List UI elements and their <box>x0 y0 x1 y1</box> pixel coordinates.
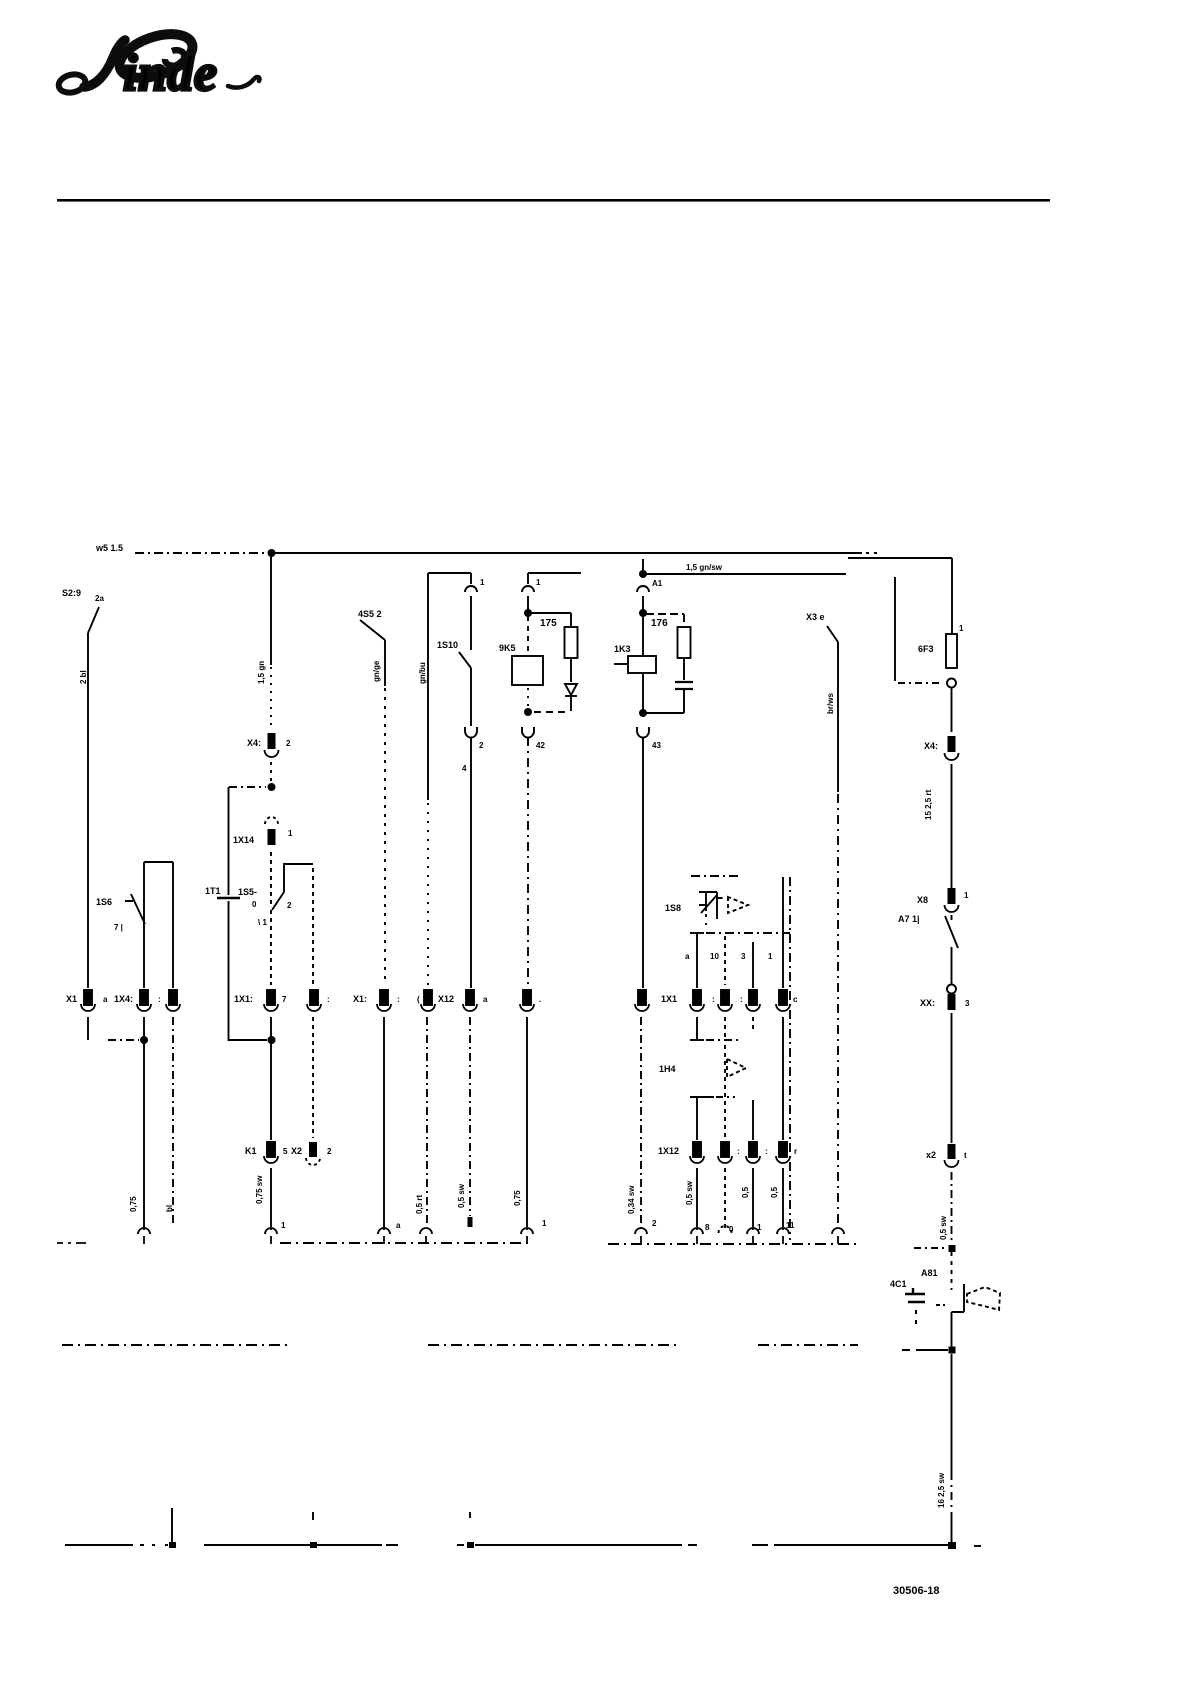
svg-text:0: 0 <box>252 900 257 909</box>
wire top bus dash-dot <box>135 552 268 554</box>
svg-text:A7 1|: A7 1| <box>898 914 920 924</box>
node G713 <box>639 709 647 717</box>
svg-text:X12: X12 <box>438 994 454 1004</box>
svg-text:0,75: 0,75 <box>129 1196 138 1212</box>
connector G end <box>635 1228 647 1244</box>
wire 4S5 dashed <box>384 688 386 985</box>
svg-text:1: 1 <box>959 624 964 633</box>
svg-text:2: 2 <box>479 741 484 750</box>
node D1040 <box>268 1036 276 1044</box>
connector P2 <box>712 990 732 1011</box>
svg-text:1S10: 1S10 <box>437 640 458 650</box>
connector X1 row6 <box>353 990 400 1011</box>
ground stub <box>171 1508 173 1545</box>
connector F plug <box>465 573 485 592</box>
switch 4S5 <box>358 609 385 640</box>
wire F long <box>470 737 472 988</box>
node B junction <box>140 1036 148 1044</box>
wire 4S5 bottom <box>383 1017 385 1230</box>
connector Q3 <box>746 1142 768 1163</box>
wire P1 below <box>696 1017 698 1039</box>
svg-text:1S6: 1S6 <box>96 897 112 907</box>
ground bus 4 <box>774 1544 948 1546</box>
svg-text:1: 1 <box>281 1221 286 1230</box>
connector H plug <box>522 573 541 592</box>
svg-text:X3 e: X3 e <box>806 612 825 622</box>
wire E lower <box>312 1017 314 1138</box>
wire K line <box>894 577 896 681</box>
svg-text:15 2,5 rt: 15 2,5 rt <box>924 789 933 820</box>
svg-text:10: 10 <box>710 952 719 961</box>
svg-text:XX:: XX: <box>920 998 935 1008</box>
instrument frame bottom bar <box>690 1039 740 1041</box>
svg-text:0,5 sw: 0,5 sw <box>685 1180 694 1205</box>
wire P3 below <box>752 1017 754 1033</box>
switch X3 <box>806 612 838 642</box>
svg-text:K1: K1 <box>245 1146 257 1156</box>
svg-text::: : <box>712 995 715 1004</box>
svg-text:t: t <box>964 1151 967 1160</box>
wire D dotted <box>270 667 272 729</box>
fuse 6F3 <box>918 624 964 668</box>
connector E row <box>307 990 330 1011</box>
svg-text:1X14: 1X14 <box>233 835 254 845</box>
svg-text:.: . <box>539 995 541 1004</box>
instrument panel frame right <box>789 877 791 1240</box>
wire G stub <box>642 559 644 574</box>
wire H dash <box>527 616 529 653</box>
svg-text:1: 1 <box>480 578 485 587</box>
wire R3 <box>951 947 953 984</box>
connector B end <box>138 1228 150 1244</box>
wire F left dotted <box>427 803 429 985</box>
svg-text:0,5 rt: 0,5 rt <box>415 1195 424 1214</box>
node ground stub <box>169 1542 176 1548</box>
connector XX:3 <box>920 985 970 1011</box>
wire G long <box>642 737 644 988</box>
svg-text:2: 2 <box>287 901 292 910</box>
connector H socket <box>522 727 545 750</box>
svg-text:X4:: X4: <box>924 741 938 751</box>
frame line low3 <box>758 1344 858 1346</box>
resistor 176 branch <box>646 614 691 680</box>
wire R link2 <box>902 1349 948 1351</box>
connector 1X1:7 <box>234 990 287 1011</box>
svg-text:0,5: 0,5 <box>770 1186 779 1198</box>
svg-text:\ 1: \ 1 <box>258 918 267 927</box>
ground bus dots <box>140 1544 168 1546</box>
svg-text:bl: bl <box>165 1205 174 1212</box>
wire X3 <box>837 642 839 792</box>
wire P2 below <box>724 1017 726 1037</box>
svg-text:2: 2 <box>327 1147 332 1156</box>
svg-text:A1: A1 <box>652 579 663 588</box>
svg-text:1,5 gn: 1,5 gn <box>257 661 266 684</box>
header rule <box>57 199 1050 202</box>
svg-text:0,75 sw: 0,75 sw <box>255 1175 264 1204</box>
wire D top <box>270 553 272 665</box>
svg-text:S2:9: S2:9 <box>62 588 81 598</box>
wire K link <box>898 682 940 684</box>
svg-text:1X12: 1X12 <box>658 1146 679 1156</box>
wire P2 top <box>724 936 726 985</box>
Linde logo <box>57 26 260 102</box>
svg-text::: : <box>765 1147 768 1156</box>
lower frame bar <box>690 1096 735 1098</box>
svg-text:2: 2 <box>286 739 291 748</box>
svg-text::: : <box>397 995 400 1004</box>
svg-text:w5 1.5: w5 1.5 <box>95 543 123 553</box>
svg-text:1: 1 <box>964 891 969 900</box>
wire Q3 bottom <box>752 1168 754 1230</box>
frame line low1 <box>62 1344 290 1346</box>
wire A stub <box>87 1017 89 1040</box>
node G574 <box>639 570 647 578</box>
wire B lower <box>143 1017 145 1230</box>
instrument panel frame mid <box>706 932 790 934</box>
connector P3 <box>740 990 760 1011</box>
wire P4 top <box>782 877 784 988</box>
ground bus 3 <box>475 1544 682 1546</box>
switch S2:9 <box>62 588 104 633</box>
wire P3 top <box>752 942 754 988</box>
wire Q3 <box>752 1100 754 1140</box>
connector X12:a <box>438 990 488 1011</box>
connector 1X4 <box>114 990 161 1011</box>
battery 1T1 <box>205 886 240 898</box>
svg-text:X1: X1 <box>66 994 77 1004</box>
svg-text:a: a <box>483 995 488 1004</box>
wire G mid <box>642 673 644 710</box>
wire R5 <box>951 1172 953 1244</box>
svg-text:0,5 sw: 0,5 sw <box>939 1215 948 1240</box>
buzzer 1S8 <box>665 892 748 925</box>
svg-text:7: 7 <box>282 995 287 1004</box>
svg-text:2a: 2a <box>95 594 104 603</box>
wire D bottom <box>270 1168 272 1230</box>
connector 1X1 P1 <box>661 990 704 1011</box>
wire bus2 right <box>848 558 952 634</box>
switch A7 <box>898 914 958 948</box>
frame line mid <box>57 1242 86 1244</box>
switch 1S5 <box>238 852 313 927</box>
svg-text:1X4:: 1X4: <box>114 994 133 1004</box>
svg-text:gn/bu: gn/bu <box>418 662 427 684</box>
ground bus dash2 <box>688 1544 768 1546</box>
svg-text:X8: X8 <box>917 895 928 905</box>
wire F bottom <box>469 1017 471 1216</box>
wire F bottom tick <box>468 1217 473 1227</box>
wire G upper <box>642 596 644 610</box>
svg-text:gn/ge: gn/ge <box>372 660 381 682</box>
switch 1S6 <box>96 894 145 932</box>
connector Q3 end <box>747 1228 759 1244</box>
connector H row <box>520 990 541 1011</box>
resistor 175 branch <box>531 613 578 682</box>
node D787 <box>268 783 276 791</box>
connector G row <box>635 990 649 1011</box>
svg-text:1X1:: 1X1: <box>234 994 253 1004</box>
connector Q2 <box>718 1142 740 1163</box>
svg-text:2: 2 <box>652 1219 657 1228</box>
svg-text:43: 43 <box>652 741 661 750</box>
svg-text:6F3: 6F3 <box>918 644 934 654</box>
svg-text:r: r <box>794 1147 797 1156</box>
svg-text:8: 8 <box>705 1223 710 1232</box>
svg-text:4S5 2: 4S5 2 <box>358 609 382 619</box>
svg-text:1H4: 1H4 <box>659 1064 676 1074</box>
svg-text:c: c <box>793 995 798 1004</box>
wire D lower <box>270 1017 272 1140</box>
frame line mid2 <box>280 1242 530 1244</box>
connector row7 <box>417 990 435 1011</box>
wire H upper <box>527 596 529 610</box>
node fuse circle <box>947 679 956 688</box>
svg-text:0,5 sw: 0,5 sw <box>457 1183 466 1208</box>
wire B bridge <box>144 861 173 863</box>
ground bus dash <box>386 1544 464 1546</box>
instrument panel frame top <box>691 875 740 877</box>
node R1248 <box>949 1245 956 1252</box>
wire C <box>229 787 268 1040</box>
wire R6 dash <box>951 1472 953 1516</box>
ground bus 2 <box>204 1544 382 1546</box>
connector X2:2 <box>291 1142 332 1165</box>
connector 1X14 <box>233 817 293 845</box>
wire Q4 bottom <box>782 1168 784 1230</box>
svg-text:a: a <box>685 952 690 961</box>
wire F upper <box>470 596 472 650</box>
wire row7 lower <box>426 1017 428 1226</box>
wire D dash <box>270 762 272 783</box>
wire D mid <box>270 910 272 985</box>
connector H end <box>521 1228 533 1244</box>
connector P4 <box>776 990 798 1011</box>
svg-text:176: 176 <box>651 618 668 629</box>
wire F box top <box>428 572 471 574</box>
svg-text:3: 3 <box>741 952 746 961</box>
svg-text:(: ( <box>417 995 420 1004</box>
node bus 470 <box>467 1512 474 1548</box>
relay 1K3 <box>614 644 656 673</box>
wire P4 long <box>782 1017 784 1140</box>
wire R5 link <box>914 1247 945 1249</box>
wire Q1 bottom <box>696 1168 698 1230</box>
capacitor C176 <box>675 682 693 713</box>
svg-text:1T1: 1T1 <box>205 886 221 896</box>
wire H bottom <box>526 1017 528 1230</box>
frame line low2 <box>428 1344 680 1346</box>
wire B <box>143 862 145 988</box>
wire F mid <box>470 668 472 726</box>
wire junction dash to B <box>108 1039 139 1041</box>
diode D175 <box>565 684 577 711</box>
connector X3 end <box>832 1228 844 1244</box>
svg-text:9K5: 9K5 <box>499 643 516 653</box>
pin labels P <box>685 952 773 961</box>
connector row7 end <box>420 1228 432 1244</box>
wire R7 <box>951 1516 953 1545</box>
svg-text:1K3: 1K3 <box>614 644 631 654</box>
wire top bus <box>271 552 877 554</box>
svg-text:175: 175 <box>540 618 557 629</box>
wire X3 lower <box>837 794 839 1228</box>
ground bus left <box>65 1544 133 1546</box>
svg-text:a: a <box>103 995 108 1004</box>
wire F left branch <box>427 573 429 800</box>
wire Q2 <box>724 1045 726 1138</box>
node bus 313 <box>310 1512 317 1548</box>
wire P1 top <box>690 933 704 988</box>
connector X2 right <box>926 1144 967 1167</box>
frame line mid3 <box>608 1243 860 1245</box>
connector X8:1 <box>917 888 969 912</box>
svg-text:X4:: X4: <box>247 738 261 748</box>
wire 176 return <box>646 712 684 714</box>
svg-text:1: 1 <box>757 1223 762 1232</box>
wire R6 <box>951 1354 953 1472</box>
connector X4:2 <box>247 733 291 757</box>
svg-text:1S5-: 1S5- <box>238 887 257 897</box>
svg-text:0,34 sw: 0,34 sw <box>627 1185 636 1214</box>
wire R2 <box>951 764 953 888</box>
svg-text:1: 1 <box>536 578 541 587</box>
ground bus dash3 <box>974 1545 981 1547</box>
svg-text:1S8: 1S8 <box>665 903 681 913</box>
wire R4 <box>951 1013 953 1143</box>
svg-text:30506-18: 30506-18 <box>893 1585 940 1597</box>
wire E <box>312 868 314 985</box>
node bus end <box>948 1542 956 1549</box>
connector K1:5 <box>245 1142 288 1163</box>
wire C top link <box>229 786 266 788</box>
wire G to relay <box>642 613 644 656</box>
connector 4S5 end <box>378 1228 390 1244</box>
wire H top <box>528 572 581 574</box>
svg-text:0: 0 <box>729 1225 734 1234</box>
svg-text:X2: X2 <box>291 1146 302 1156</box>
connector B2 row <box>166 990 180 1011</box>
svg-text:X1:: X1: <box>353 994 367 1004</box>
wire G bottom <box>640 1017 642 1230</box>
svg-text:1: 1 <box>768 952 773 961</box>
svg-text::: : <box>158 995 161 1004</box>
connector 1X12 Q1 <box>658 1142 704 1163</box>
connector D end <box>265 1228 277 1244</box>
wire H dots <box>527 688 529 708</box>
svg-text:4C1: 4C1 <box>890 1279 907 1289</box>
node H613 <box>524 609 532 617</box>
connector Q2 end <box>719 1226 732 1233</box>
connector G plug <box>637 579 663 592</box>
wire R1 <box>951 688 953 732</box>
svg-text:2 bl: 2 bl <box>79 670 88 684</box>
svg-text:br/ws: br/ws <box>826 693 835 714</box>
horn 1H4 <box>659 1059 746 1077</box>
switch 1S10 <box>437 640 471 668</box>
connector Q4 end <box>777 1228 789 1244</box>
wire H long <box>527 737 529 985</box>
svg-text:4: 4 <box>462 764 467 773</box>
svg-text:7 |: 7 | <box>114 923 123 932</box>
svg-text::: : <box>737 1147 740 1156</box>
connector X4:1 <box>924 736 959 760</box>
wire B2 <box>172 862 174 988</box>
svg-text::: : <box>327 995 330 1004</box>
svg-text:0,75: 0,75 <box>513 1190 522 1206</box>
wire Q1 <box>696 1097 698 1140</box>
svg-text:inde: inde <box>123 45 217 102</box>
svg-text:x2: x2 <box>926 1150 936 1160</box>
node bus junction <box>268 549 276 557</box>
svg-text::: : <box>740 995 743 1004</box>
svg-text:1: 1 <box>288 829 293 838</box>
connector X1:a <box>66 990 108 1011</box>
connector G socket <box>637 727 661 750</box>
relay 9K5 <box>499 643 543 685</box>
connector F socket <box>462 727 484 773</box>
wire 175 return <box>534 711 568 713</box>
svg-text:3: 3 <box>965 999 970 1008</box>
wire B2 lower <box>172 1017 174 1226</box>
node H712 <box>524 708 532 716</box>
node R1350 <box>949 1347 956 1354</box>
svg-text:1X1: 1X1 <box>661 994 677 1004</box>
svg-text:1,5 gn/sw: 1,5 gn/sw <box>686 563 723 572</box>
svg-text:A81: A81 <box>921 1268 938 1278</box>
horn unit A81 <box>890 1252 1000 1350</box>
wire A <box>87 633 89 988</box>
connector Q1 end <box>691 1228 703 1244</box>
wire G horizontal <box>643 573 846 575</box>
svg-text:0,5: 0,5 <box>741 1186 750 1198</box>
wire 4S5 <box>384 640 386 686</box>
svg-text:1: 1 <box>542 1219 547 1228</box>
svg-text:42: 42 <box>536 741 545 750</box>
svg-text:11: 11 <box>786 1221 795 1230</box>
svg-text:a: a <box>396 1221 401 1230</box>
node G613 <box>639 609 647 617</box>
svg-text:5: 5 <box>283 1147 288 1156</box>
svg-text:16 2,5 sw: 16 2,5 sw <box>937 1472 946 1508</box>
wire Q2 bottom <box>724 1168 726 1228</box>
connector Q4 <box>776 1142 797 1163</box>
